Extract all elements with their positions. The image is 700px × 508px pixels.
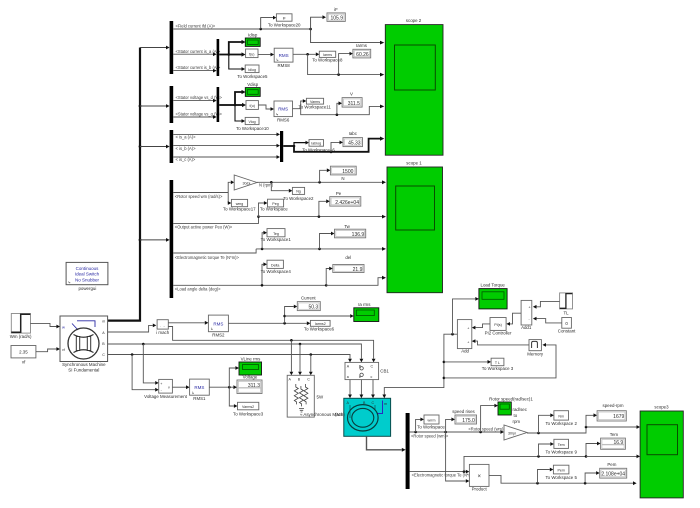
label signal stator voltage q — [176, 112, 223, 117]
svg-text:16.9: 16.9 — [613, 440, 623, 446]
wire RMS1 out to Voltage display — [209, 385, 237, 389]
wire branch up to Nm workspace — [539, 413, 554, 433]
svg-text:To Workspace4: To Workspace4 — [261, 269, 292, 274]
svg-text:Iabc: Iabc — [349, 131, 358, 136]
svg-text:vf: vf — [62, 348, 65, 352]
wire branch down to Idlog — [229, 55, 245, 71]
wire machine A to i mach — [108, 324, 157, 333]
bus selector Bus4 mechanical — [170, 180, 174, 298]
svg-text:To Workspace 2: To Workspace 2 — [545, 421, 577, 426]
svg-text:a: a — [347, 375, 349, 379]
svg-text:SI Fundamental: SI Fundamental — [68, 367, 99, 372]
svg-text:N: N — [341, 176, 344, 181]
svg-text:Product: Product — [472, 487, 488, 492]
svg-text:Current: Current — [301, 295, 316, 300]
wire RMS6 branch down along y114.7 — [301, 104, 385, 116]
svg-text:1500: 1500 — [342, 169, 353, 175]
svg-text:m: m — [384, 402, 387, 406]
scope scope2 — [385, 18, 443, 155]
svg-text:Vlog: Vlog — [248, 120, 255, 124]
memory block — [527, 340, 544, 357]
wire tap B to load — [298, 344, 302, 375]
wire Mux1 out to f(u) with branches — [219, 52, 245, 56]
svg-text:del: del — [345, 255, 351, 260]
display Current value — [297, 295, 320, 310]
wire CB1 a to async machine — [348, 380, 352, 399]
wire i mach meas out to RMS2 — [168, 321, 208, 325]
wire Peo to scope1 input2 — [259, 215, 387, 219]
wire wm down to product input2 — [446, 432, 470, 483]
wire vs_q into Mux2 — [173, 115, 216, 119]
current measure i mach — [156, 320, 169, 336]
svg-text:To Workspace2: To Workspace2 — [283, 196, 314, 201]
svg-text:scope3: scope3 — [654, 404, 669, 409]
svg-text:speed-rpm: speed-rpm — [603, 403, 624, 408]
svg-text:30/pi: 30/pi — [243, 181, 251, 185]
mux Mux3 — [280, 131, 283, 162]
wire branch up to Tem workspace — [539, 442, 554, 456]
svg-text:<Stator voltage vs_q (V)>: <Stator voltage vs_q (V)> — [176, 112, 223, 117]
wire branch up to Pem workspace — [538, 468, 554, 484]
svg-text:f(u): f(u) — [250, 104, 255, 108]
to-workspace Iablog — [302, 140, 335, 153]
display del value — [333, 255, 364, 273]
label signal rotor speed wm left — [411, 434, 449, 439]
svg-text:+: + — [529, 306, 531, 310]
svg-text:<Electromagnetic torque Te (N: <Electromagnetic torque Te (N*m)> — [175, 255, 240, 260]
wire is_a into Mux1 — [173, 52, 216, 56]
display Ia rms green — [354, 302, 379, 321]
svg-text:To Workspace20: To Workspace20 — [268, 23, 301, 28]
wire rotor speed wm from Bus4 — [173, 192, 228, 194]
svg-text:Ng: Ng — [296, 190, 301, 194]
to-workspace iF — [268, 14, 301, 28]
svg-text:wmg: wmg — [236, 202, 244, 206]
svg-text:<Stator current is_b (A)>: <Stator current is_b (A)> — [176, 65, 221, 70]
svg-text:To Workspace: To Workspace — [260, 206, 288, 211]
svg-text:scope 1: scope 1 — [406, 161, 422, 166]
wire branch loop to Memory input — [444, 343, 556, 378]
svg-text:scope 2: scope 2 — [406, 18, 422, 23]
display Voltage value — [237, 375, 262, 394]
product block — [469, 464, 489, 491]
svg-text:Tem: Tem — [558, 443, 565, 447]
svg-text:To Workspace11: To Workspace11 — [299, 105, 332, 110]
to-workspace Ng — [283, 187, 314, 201]
wire gain2 out to scope3 input1 — [527, 425, 640, 434]
scope scope3 — [640, 404, 683, 498]
svg-text:<Field current ifd (A)>: <Field current ifd (A)> — [176, 24, 216, 29]
svg-text:50.3: 50.3 — [308, 305, 318, 311]
display speed rises value — [452, 409, 476, 424]
svg-text:311.5: 311.5 — [348, 101, 360, 107]
svg-text:Voltage: Voltage — [243, 375, 258, 380]
display Pe value — [330, 191, 361, 206]
to-workspace wrrm — [417, 415, 445, 430]
svg-text:↳: ↳ — [276, 58, 279, 62]
svg-text:RMS: RMS — [279, 53, 289, 58]
wire Mux2 out to f(u)1 with branches — [219, 103, 246, 107]
wire branch up to Current display and Ia rms — [283, 305, 297, 324]
wire branch up to Teg — [262, 231, 267, 249]
svg-text:↳: ↳ — [68, 281, 71, 285]
svg-text:T L: T L — [495, 361, 500, 365]
breaker CB1 — [345, 362, 389, 379]
svg-text:2.426e+04: 2.426e+04 — [335, 200, 359, 206]
svg-text:C: C — [102, 353, 105, 357]
svg-text:5W: 5W — [317, 394, 324, 399]
label signal ia — [176, 135, 197, 140]
wire Tem row to scope3 input2 — [586, 455, 640, 459]
wire ifd to scope2 input1 — [311, 29, 385, 45]
wire RMS2 out to Iarms2 — [228, 321, 310, 325]
svg-text:136.9: 136.9 — [352, 232, 365, 238]
svg-text:Varms2: Varms2 — [242, 405, 254, 409]
display Iabc value — [343, 131, 363, 146]
to-workspace Iarms — [312, 51, 343, 62]
wire Bus5 Te out — [410, 470, 470, 474]
svg-text:+: + — [467, 340, 469, 344]
wire branch up to Iarms display — [339, 52, 353, 75]
svg-text:CB1: CB1 — [380, 368, 389, 373]
node junction trunk to Bus4 — [139, 238, 170, 242]
wire branch down to Ng — [271, 182, 292, 192]
svg-text:Delta: Delta — [271, 263, 279, 267]
svg-text:VLine rms: VLine rms — [241, 356, 262, 361]
svg-text:1679: 1679 — [613, 414, 624, 420]
svg-text:w: w — [62, 324, 65, 329]
label Asynchronous Machine — [300, 412, 350, 417]
to-workspace Pem — [545, 465, 577, 480]
svg-text:+: + — [467, 327, 469, 331]
to-workspace Varms — [299, 98, 332, 109]
svg-text:V: V — [350, 91, 353, 96]
svg-text:↳: ↳ — [191, 391, 194, 395]
display Tem value — [601, 432, 626, 449]
constant zero — [558, 318, 576, 334]
svg-text:.: . — [160, 323, 161, 327]
svg-text:powergui: powergui — [78, 286, 96, 291]
svg-text:<Stator current is_a (A)>: <Stator current is_a (A)> — [176, 49, 221, 54]
svg-text:< is_b (A)>: < is_b (A)> — [176, 146, 197, 151]
wire Te to scope1 input3 — [256, 247, 386, 251]
wire branch up to Load Torque display — [453, 297, 479, 334]
svg-text:21.9: 21.9 — [353, 267, 363, 273]
wire branch right to Ia rms green display — [285, 314, 354, 318]
svg-text:311.3: 311.3 — [248, 383, 260, 389]
wire f(u)1 to RMS6 — [258, 105, 274, 111]
wire is_b into Mux1 — [173, 69, 216, 73]
bus selector Bus5 — [406, 413, 410, 489]
to-workspace Nm — [545, 411, 577, 426]
wire B tap to voltage measurement plus — [143, 344, 158, 385]
sum Add1 mirrored — [521, 300, 532, 330]
label signal ic — [176, 157, 196, 162]
to-workspace Iarms2 — [304, 320, 335, 331]
wire i mach conductor continues phase A — [168, 327, 375, 363]
svg-text:Iarms: Iarms — [356, 43, 368, 48]
fcn f(u) voltage — [246, 101, 258, 110]
svg-text:< is_a (A)>: < is_a (A)> — [176, 135, 197, 140]
wire memory out to Add input2 — [472, 339, 529, 345]
display N value — [330, 166, 356, 181]
svg-text:<Rotor speed (wm)>: <Rotor speed (wm)> — [468, 427, 506, 432]
svg-text:2.35: 2.35 — [19, 350, 28, 355]
svg-text:To Workspace 5: To Workspace 5 — [545, 475, 577, 480]
block Voltage Measurement — [144, 379, 187, 399]
svg-text:To Workspace10: To Workspace10 — [236, 126, 269, 131]
label signal Te — [175, 255, 240, 260]
to-workspace T L — [482, 358, 514, 371]
to-workspace Delta — [261, 260, 292, 274]
wire Add out trunk down — [382, 333, 457, 398]
svg-text:Tw: Tw — [344, 224, 350, 229]
wire branch up to Peg — [259, 201, 268, 217]
sum Add mirrored — [457, 320, 471, 354]
controller PI2 — [485, 318, 512, 336]
wire branch up to Delta workspace — [261, 262, 267, 286]
svg-text:Pem: Pem — [607, 462, 616, 467]
svg-text:Ia rms: Ia rms — [358, 302, 371, 307]
wire C tap to voltage measurement minus — [132, 355, 159, 392]
svg-text:30/pi: 30/pi — [508, 431, 516, 435]
wire vs_d into Mux2 — [173, 99, 216, 103]
wire trunk stub into demux Bus1 — [140, 46, 170, 50]
display Vdisp green — [245, 82, 260, 97]
wire product out to Pem row — [489, 475, 637, 485]
svg-text:Vdisp: Vdisp — [247, 82, 259, 87]
label signal stator voltage d — [176, 95, 223, 100]
wire tap C to load — [309, 355, 313, 376]
svg-text:To Workspace5: To Workspace5 — [237, 74, 268, 79]
svg-text:RMS: RMS — [213, 321, 223, 326]
svg-text:Constant: Constant — [558, 329, 576, 334]
display Iarms value — [353, 43, 371, 58]
display speed-rpm value — [597, 403, 626, 421]
node junction trunk to Bus2 — [139, 104, 170, 108]
wire machine B phase line — [108, 343, 364, 363]
display rad/sec green — [489, 397, 533, 424]
wire branch up to gain 30/pi — [228, 180, 234, 192]
wire branch to T L workspace — [444, 360, 491, 364]
wire branch up to del display — [326, 267, 333, 286]
svg-text:To Workspace1: To Workspace1 — [261, 237, 292, 242]
svg-text:Nm: Nm — [558, 414, 564, 418]
svg-text:wrrm: wrrm — [428, 419, 436, 423]
wire branch up to speed-rpm display — [586, 413, 597, 427]
to-workspace Teg — [261, 229, 292, 242]
svg-text:f(u): f(u) — [249, 52, 254, 56]
svg-text:↳: ↳ — [210, 327, 213, 331]
svg-text:Iablog: Iablog — [311, 142, 321, 146]
wire VM to RMS1 — [172, 385, 189, 389]
label signal rotor speed — [175, 194, 223, 199]
svg-text:+: + — [160, 382, 162, 386]
display iF value — [327, 7, 345, 22]
svg-text:2.108e+04: 2.108e+04 — [601, 471, 625, 477]
svg-text:to: to — [514, 413, 518, 418]
svg-text:To Workspace17: To Workspace17 — [223, 206, 256, 211]
svg-text:<Output active power Peo (W)>: <Output active power Peo (W)> — [175, 225, 233, 230]
svg-text:To Workspace6: To Workspace6 — [304, 327, 335, 332]
wire branch up to V display — [337, 101, 342, 114]
wire Constant to Add1 input2 — [533, 317, 562, 323]
bus selector Bus2 voltages — [170, 86, 174, 123]
wire branch down to wmg — [228, 193, 232, 205]
wire branch up to Tw display — [320, 232, 335, 249]
svg-text:rad/sec: rad/sec — [513, 407, 528, 412]
label signal stator current a — [176, 49, 221, 54]
svg-text:105.9: 105.9 — [330, 16, 343, 22]
wire async m out down to Bus5 — [367, 436, 406, 451]
display Tw value — [335, 224, 366, 238]
label signal load angle — [175, 287, 221, 292]
svg-text:Memory: Memory — [527, 351, 544, 356]
wire measurement trunk from machine m port — [108, 48, 140, 321]
bus selector Bus3 abc currents — [170, 130, 174, 163]
to-workspace Tem — [545, 439, 577, 454]
label N rpm — [259, 183, 274, 188]
svg-text:C: C — [371, 364, 374, 368]
node ifd to iF workspace — [259, 16, 276, 31]
to-workspace Varms2 — [233, 402, 264, 416]
svg-text:v: v — [168, 386, 170, 390]
wire Bus5 rotor speed wm out — [410, 430, 504, 434]
node junction trunk to Bus3 — [139, 145, 170, 149]
svg-text:Rotor speed(rad/sec)1: Rotor speed(rad/sec)1 — [489, 397, 533, 402]
wire ib into Mux3 — [173, 144, 280, 148]
wire PI2 out to Add input1 — [472, 324, 490, 330]
to-workspace Idlog — [237, 65, 268, 79]
wire CB1 b to async machine — [360, 380, 364, 399]
wire branch up to Iabc display — [331, 141, 343, 152]
constant vf — [11, 346, 36, 365]
label signal output power — [175, 225, 233, 230]
label signal ib — [176, 146, 197, 151]
svg-text:Teg: Teg — [273, 232, 279, 236]
block RMS8 — [274, 48, 293, 68]
label signal field current — [176, 24, 216, 29]
machine Asynchronous Machine cyan block — [335, 398, 391, 436]
wire thick down-right to Iabc display and scope2 input4 — [294, 137, 384, 154]
powergui block — [66, 262, 108, 291]
svg-text:Add: Add — [461, 348, 469, 353]
wire branch down to Vlog — [235, 105, 245, 123]
to-workspace wmg — [223, 199, 256, 211]
svg-text:To Workspace 3: To Workspace 3 — [482, 366, 514, 371]
svg-text:Load Torque: Load Torque — [481, 282, 506, 287]
svg-text:TL: TL — [563, 310, 569, 315]
block RMS6 — [274, 101, 293, 123]
svg-text:To Workspace3: To Workspace3 — [233, 411, 264, 416]
svg-text:RMS8: RMS8 — [277, 63, 290, 68]
display Idisp green — [245, 32, 260, 46]
wire branch up to Vdisp — [235, 90, 246, 105]
wire load angle from Bus4 — [173, 284, 327, 287]
wire branch up to Pem display — [585, 471, 600, 483]
wire f(u) to RMS8 — [258, 53, 274, 57]
svg-text:RMS6: RMS6 — [277, 118, 290, 123]
svg-text:Tem: Tem — [610, 432, 619, 437]
bus selector Bus1 currents — [170, 21, 174, 74]
gain2 30/pi — [504, 425, 527, 440]
wire load angle to scope1 input4 — [326, 276, 386, 286]
wire Add1 out to PI2 — [506, 313, 521, 326]
wire ic into Mux3 — [173, 155, 280, 159]
wire output power Peo from Bus4 — [173, 215, 260, 223]
wire RMS8 branch down to scope2 input2 — [308, 54, 385, 76]
wire CB1 c to async machine — [371, 380, 375, 399]
svg-text:<Rotor speed wm (rad/s)>: <Rotor speed wm (rad/s)> — [175, 194, 223, 199]
svg-text:Varms: Varms — [310, 100, 320, 104]
svg-text:Idisp: Idisp — [248, 32, 258, 37]
svg-text:60.26: 60.26 — [356, 52, 369, 58]
node ifd split to display and scope — [309, 15, 326, 30]
source Wm step block — [10, 314, 32, 340]
mux Mux1 — [217, 39, 220, 76]
wire ia into Mux3 — [173, 133, 280, 137]
svg-text:speed rises: speed rises — [452, 409, 475, 414]
svg-text:RMS: RMS — [194, 385, 204, 390]
wire Te torque from Bus4 — [173, 249, 256, 253]
svg-text:rpm: rpm — [513, 419, 521, 424]
svg-text:PI2 Controller: PI2 Controller — [485, 331, 512, 336]
wire Wm to machine w input — [30, 323, 60, 328]
wire gain out to scope1 input1 — [257, 180, 386, 184]
wire RMS8 out to Iarms workspace — [293, 52, 319, 56]
svg-text:Iarms: Iarms — [323, 53, 332, 57]
wire branch up to Idisp — [229, 40, 246, 55]
svg-text:Wm (rad/s): Wm (rad/s) — [10, 334, 32, 339]
wire branch up to VLine rms green — [229, 366, 239, 387]
svg-text:Pe: Pe — [336, 191, 342, 196]
gain 30/pi rad to rpm — [234, 175, 257, 190]
svg-text:Add1: Add1 — [521, 325, 532, 330]
wire tap A to load — [290, 340, 294, 375]
svg-text:Iarms2: Iarms2 — [315, 322, 326, 326]
svg-text:RMS1: RMS1 — [193, 396, 206, 401]
svg-text:No Snubber: No Snubber — [75, 277, 100, 282]
wire vf to machine vf input — [36, 347, 60, 352]
svg-text:45.33: 45.33 — [348, 141, 361, 147]
display Pem value — [600, 462, 627, 478]
svg-text:c: c — [371, 375, 373, 379]
wire machine C phase line — [108, 353, 352, 362]
svg-text:To Workspace 9: To Workspace 9 — [545, 449, 577, 454]
wire branch up to radsec green display — [481, 404, 498, 432]
svg-text:(Nm): (Nm) — [335, 412, 345, 417]
to-workspace Vlog — [236, 117, 269, 131]
svg-text:<Load angle delta (deg)>: <Load angle delta (deg)> — [175, 287, 221, 292]
label signal Te bottom — [412, 472, 477, 477]
fcn f(u) current — [246, 49, 258, 58]
svg-text:m: m — [102, 320, 105, 324]
display VLine rms green — [239, 356, 262, 375]
block RMS2 — [208, 315, 228, 337]
wire branch up to Pe display — [319, 199, 330, 216]
svg-text:To Workspace: To Workspace — [417, 425, 445, 430]
wire TL to Add1 input1 — [533, 301, 560, 308]
wire RMS6 out with branch to Varms — [293, 99, 307, 109]
wire branch up to speed rises display — [446, 418, 455, 433]
svg-text:RMS: RMS — [278, 107, 288, 112]
display Load Torque green — [479, 282, 507, 309]
wire Mux3 out thick to Iablog and scope2 — [283, 141, 309, 148]
svg-text:iF: iF — [334, 7, 338, 12]
svg-text:Idlog: Idlog — [248, 68, 256, 72]
svg-text:i mach: i mach — [156, 330, 169, 335]
machine Synchronous Machine block — [60, 316, 108, 372]
